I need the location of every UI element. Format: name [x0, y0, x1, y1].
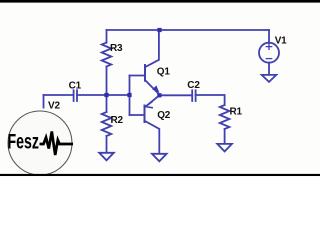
wire R2 top lead	[106, 95, 108, 112]
ground under R1	[217, 144, 232, 152]
wire R3 top lead	[106, 30, 108, 43]
resistor R3	[102, 43, 112, 67]
wire C2 to R1	[196, 95, 225, 105]
wire input bus	[44, 94, 74, 96]
voltage source V1	[259, 43, 279, 63]
wire top rail	[107, 29, 270, 31]
svg-text:Fesz: Fesz	[8, 129, 40, 153]
ground under V1	[262, 75, 277, 82]
node dot top rail	[157, 28, 161, 32]
transistor Q2	[145, 95, 160, 153]
resistor R1	[220, 105, 230, 129]
resistor R2	[102, 112, 112, 136]
svg-text:C1: C1	[69, 80, 82, 91]
wire V1 drop	[268, 30, 270, 43]
capacitor C1	[74, 90, 77, 101]
Fesz logo circle	[8, 111, 72, 175]
node dot input/R divider	[104, 93, 108, 97]
svg-text:R2: R2	[111, 115, 124, 126]
ground under R2	[99, 153, 114, 161]
node dot output	[157, 93, 161, 97]
svg-text:V2: V2	[48, 101, 60, 112]
svg-text:Q2: Q2	[157, 110, 171, 121]
svg-text:R1: R1	[230, 107, 243, 118]
wire Q1 base	[130, 75, 145, 77]
svg-text:C2: C2	[187, 80, 200, 91]
top black bar	[0, 0, 320, 3]
wire Q2 base	[130, 114, 145, 116]
ground under Q2	[152, 154, 167, 162]
svg-text:R3: R3	[110, 43, 123, 54]
bottom black line	[0, 174, 320, 176]
Fesz logo waveform	[40, 132, 74, 156]
transistor Q1	[145, 30, 159, 95]
svg-text:Q1: Q1	[157, 66, 171, 77]
wire base bus	[129, 76, 131, 116]
svg-text:V1: V1	[275, 35, 287, 46]
wire R2 bottom lead	[106, 136, 108, 153]
wire R3 bottom lead	[106, 67, 108, 96]
capacitor C2	[192, 90, 195, 101]
node dot base bus	[127, 93, 131, 97]
wire C1 to bases	[77, 94, 130, 96]
wire R1 bottom lead	[224, 129, 226, 144]
wire V2 riser	[43, 95, 45, 108]
wire V1 to ground	[268, 63, 270, 75]
wire output	[159, 94, 191, 96]
